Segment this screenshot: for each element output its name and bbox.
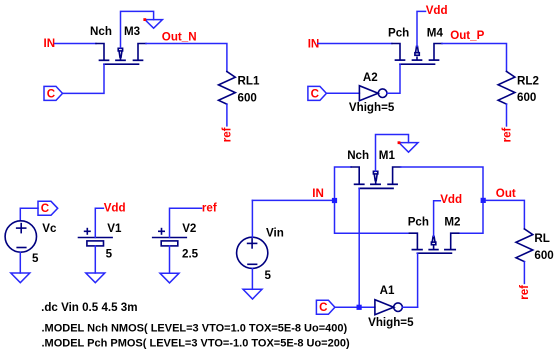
svg-text:5: 5 xyxy=(106,247,113,260)
wire M2 gate down to A1 output xyxy=(417,253,419,307)
wire V2 to ground xyxy=(169,246,171,273)
wire M1 gate down to node A xyxy=(358,188,360,307)
voltage source Vin xyxy=(237,237,268,268)
wire A1 output to M2 gate xyxy=(402,306,417,308)
svg-text:C: C xyxy=(311,87,320,100)
svg-text:ref: ref xyxy=(202,201,217,214)
transistor M4 xyxy=(392,44,442,65)
svg-text:V1: V1 xyxy=(107,222,122,235)
svg-text:5: 5 xyxy=(32,252,39,265)
battery V2 xyxy=(153,229,187,246)
svg-text:.MODEL Nch NMOS( LEVEL=3 VTO=1: .MODEL Nch NMOS( LEVEL=3 VTO=1.0 TOX=5E-… xyxy=(42,323,348,335)
svg-text:Vdd: Vdd xyxy=(440,193,462,206)
wire C to A2 xyxy=(326,92,359,94)
ground at V1 xyxy=(86,273,105,283)
wire RL1 bottom xyxy=(226,104,228,126)
svg-text:ref: ref xyxy=(518,285,531,300)
svg-text:C: C xyxy=(319,301,328,314)
wire RL bottom xyxy=(523,262,525,284)
svg-text:Pch: Pch xyxy=(388,26,409,39)
wire M4 right pin to RL2 xyxy=(442,44,507,72)
wire M3 right pin to RL1 xyxy=(146,44,227,72)
port C (top-right) xyxy=(308,86,327,100)
svg-text:.dc Vin 0.5 4.5 3m: .dc Vin 0.5 4.5 3m xyxy=(41,301,137,314)
svg-text:C: C xyxy=(47,87,56,100)
wire IN to M3 left pin xyxy=(55,43,96,45)
wire M1 bulk to ground xyxy=(376,135,409,172)
battery V1 xyxy=(79,229,113,246)
port C (Vc) xyxy=(38,201,58,215)
ground at Vc xyxy=(11,273,30,283)
svg-text:Vdd: Vdd xyxy=(426,4,448,17)
wire V2 to ref label xyxy=(170,208,202,237)
resistor RL2 xyxy=(498,71,515,104)
svg-text:Out_N: Out_N xyxy=(162,30,197,43)
wire Vin to node IN xyxy=(252,199,331,201)
resistor RL xyxy=(516,229,533,262)
svg-text:Nch: Nch xyxy=(90,25,112,38)
svg-text:C: C xyxy=(41,202,50,215)
wire RL2 bottom xyxy=(506,104,508,126)
wire V1 to Vdd label xyxy=(95,208,103,237)
wire Vc to ground xyxy=(19,252,21,273)
svg-text:RL1: RL1 xyxy=(238,75,260,88)
wire C to Vc xyxy=(20,208,38,221)
wire IN to M4 left pin xyxy=(318,43,392,45)
wire M1 right pin to node Out xyxy=(401,167,483,197)
wire Vin top xyxy=(251,200,253,237)
wire V1 to ground xyxy=(94,246,96,273)
svg-text:ref: ref xyxy=(221,127,234,142)
wire C to A1 xyxy=(335,306,375,308)
svg-text:Nch: Nch xyxy=(347,149,369,162)
svg-text:ref: ref xyxy=(500,127,513,142)
svg-text:Vhigh=5: Vhigh=5 xyxy=(349,101,395,114)
wire Vin to ground xyxy=(251,268,253,289)
svg-text:2.5: 2.5 xyxy=(182,247,199,260)
voltage source Vc xyxy=(5,221,36,252)
svg-text:Vin: Vin xyxy=(266,226,284,239)
node A junction (A1 input) xyxy=(357,305,362,310)
svg-text:M1: M1 xyxy=(379,149,396,162)
port C (top-left) xyxy=(44,86,63,100)
svg-text:.MODEL Pch PMOS( LEVEL=3 VTO=-: .MODEL Pch PMOS( LEVEL=3 VTO=-1.0 TOX=5E… xyxy=(42,338,350,350)
port C (A1) xyxy=(316,300,335,314)
wire node IN up to M1 xyxy=(335,167,352,197)
svg-text:RL2: RL2 xyxy=(517,75,539,88)
ground at Vin xyxy=(243,289,262,299)
svg-text:Out: Out xyxy=(496,187,516,200)
svg-text:M2: M2 xyxy=(444,215,460,228)
svg-text:A2: A2 xyxy=(363,71,378,84)
wire node Out to RL xyxy=(486,200,524,229)
ground at V2 xyxy=(160,273,179,283)
inverter A2 xyxy=(359,86,387,101)
wire M3 bulk to ground xyxy=(121,11,154,47)
svg-text:M3: M3 xyxy=(124,25,141,38)
wire M2 bulk to Vdd xyxy=(434,201,441,237)
wire A2 output to M4 gate xyxy=(387,64,400,93)
wire M3 gate to port C xyxy=(63,64,105,93)
svg-text:M4: M4 xyxy=(427,26,444,39)
transistor M1 xyxy=(351,167,400,188)
node Out junction xyxy=(481,198,486,203)
wire node IN down to M2 left pin xyxy=(335,203,410,233)
svg-text:Vc: Vc xyxy=(42,222,57,235)
svg-text:V2: V2 xyxy=(182,222,196,235)
node IN junction xyxy=(332,198,337,203)
transistor M3 xyxy=(96,44,146,65)
svg-text:600: 600 xyxy=(238,92,257,105)
wire M4 bulk to Vdd xyxy=(417,11,426,46)
svg-text:Vdd: Vdd xyxy=(104,201,126,214)
svg-text:600: 600 xyxy=(534,249,553,262)
svg-text:Out_P: Out_P xyxy=(450,29,484,42)
svg-text:600: 600 xyxy=(517,91,536,104)
transistor M2 xyxy=(409,233,458,253)
resistor RL1 xyxy=(219,72,236,105)
svg-text:Vhigh=5: Vhigh=5 xyxy=(368,316,414,329)
svg-text:IN: IN xyxy=(312,187,324,200)
svg-text:A1: A1 xyxy=(380,284,395,297)
ground at M1 xyxy=(399,143,418,153)
wire node Out down to M2 xyxy=(459,203,483,233)
svg-text:5: 5 xyxy=(265,269,272,282)
svg-text:IN: IN xyxy=(44,37,56,50)
inverter A1 xyxy=(375,300,402,315)
svg-text:Pch: Pch xyxy=(408,215,429,228)
ground at M3 xyxy=(145,20,163,29)
svg-text:RL: RL xyxy=(534,232,549,245)
